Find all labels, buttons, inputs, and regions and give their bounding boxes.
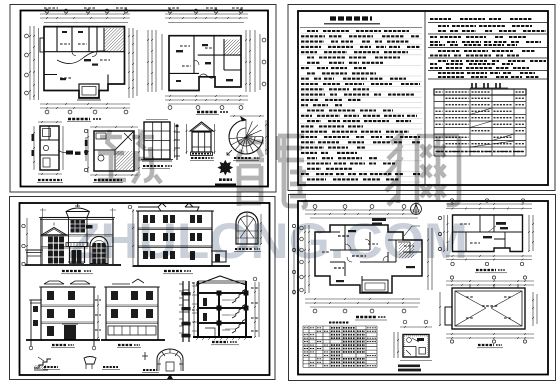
- spiral stair title: [234, 157, 252, 159]
- window C1 grid: [144, 122, 170, 159]
- BR table grid: [303, 326, 377, 367]
- wall section strip: [183, 281, 189, 342]
- elev2 parapet: [136, 203, 214, 211]
- kitchen fixtures: [96, 133, 106, 139]
- window C2 dims: [186, 124, 188, 154]
- window C3 dims: [260, 214, 262, 244]
- window C2 title: [191, 157, 207, 159]
- wc detail walls: [403, 335, 429, 358]
- kitchen stair hatch: [116, 151, 133, 170]
- floor plan 2 terrace curve: [199, 74, 215, 78]
- floor plan 1 room labels: [60, 43, 70, 45]
- floor plan 2 top bubbles: [168, 9, 172, 13]
- BR table header: [329, 322, 349, 324]
- floor plan 1 bottom dims: [40, 103, 130, 105]
- floor plan 2 right bubbles: [262, 38, 266, 42]
- spec left column text: [307, 30, 318, 32]
- bathroom title: [38, 179, 62, 181]
- floor plan 1 left annex: [40, 38, 44, 52]
- elev2 title: [164, 270, 182, 272]
- site plan leader: [404, 226, 420, 236]
- elev4 ground: [101, 339, 165, 341]
- section beam blobs: [217, 291, 222, 296]
- schedule table text: [436, 91, 443, 93]
- sheet TR inner border: [298, 11, 548, 185]
- wc wall dots: [405, 336, 428, 356]
- tank left chamber: [445, 307, 452, 325]
- sheet BR outer border: [289, 195, 556, 381]
- elev1 parapet: [39, 218, 115, 220]
- mid dim column: [97, 295, 99, 338]
- floor plan 1 left bubbles: [25, 34, 29, 38]
- elev1 left bubbles: [22, 224, 25, 227]
- svg-text:ZHULONG.COM: ZHULONG.COM: [68, 213, 468, 269]
- floor plan 1 right dims: [128, 28, 130, 98]
- elev2 ground: [133, 265, 230, 267]
- compass: [411, 204, 422, 215]
- site plan bottom bubbles: [313, 309, 317, 313]
- site plan stair: [398, 242, 410, 254]
- spec title: [330, 16, 372, 20]
- schedule symbols: [472, 83, 500, 88]
- elev4 roof: [104, 279, 160, 287]
- elev3 ground: [26, 339, 100, 341]
- attic bottom dims: [446, 255, 532, 257]
- section right dims: [254, 282, 256, 337]
- attic interior: [453, 215, 523, 252]
- sheet TR outer border: [288, 5, 555, 191]
- floor plan 1 top dims: [40, 13, 130, 15]
- bathroom dims: [33, 126, 35, 170]
- elev3 title: [52, 344, 66, 346]
- site plan top bubbles: [313, 205, 317, 209]
- elev1 balcony: [66, 243, 88, 247]
- bathroom fixtures: [43, 129, 51, 137]
- elev3 outline: [41, 287, 94, 340]
- elev3 left annex: [31, 300, 41, 340]
- window C1 dims: [174, 123, 176, 158]
- window C3 arch: [236, 212, 258, 244]
- window C1 frame: [144, 122, 170, 159]
- site plan inner walls: [330, 225, 422, 285]
- floor plan 2 top dims: [165, 13, 248, 15]
- section title: [212, 341, 228, 343]
- sheet TL inner border: [21, 11, 269, 187]
- elev2 annex: [212, 251, 226, 262]
- window C2 pediment: [190, 122, 213, 131]
- elev1 left window stack: [48, 237, 64, 264]
- floor plan 1 outer walls: [44, 27, 125, 98]
- floor plan 1 top bubbles: [45, 9, 49, 13]
- wc fixtures: [407, 338, 412, 343]
- kitchen title: [94, 179, 122, 181]
- wall section marks: [192, 285, 198, 287]
- wc dims: [400, 326, 432, 328]
- site plan door arcs: [345, 239, 388, 262]
- window C2 frame: [192, 132, 211, 152]
- kitchen dims: [90, 126, 138, 128]
- bathroom left dim text: [32, 134, 34, 141]
- section interior: [203, 298, 207, 306]
- detail arch title: [143, 369, 157, 371]
- elev4 windows: [111, 291, 118, 300]
- section ground: [193, 336, 252, 338]
- BR table text: [304, 327, 308, 329]
- window C1 sill: [141, 160, 173, 162]
- spiral stair: [245, 120, 247, 137]
- spec column divider: [424, 11, 426, 185]
- elev3 floors: [41, 305, 94, 324]
- section walls: [198, 281, 246, 337]
- elev2 windows r1: [143, 215, 148, 223]
- elev3 windows: [47, 291, 54, 300]
- sheet TL outer border: [10, 5, 276, 193]
- elev1 entry: [72, 250, 82, 264]
- elev1 roof blob: [86, 225, 93, 229]
- elev2 windows r2: [143, 233, 148, 241]
- bathroom plan walls: [40, 126, 59, 170]
- floor plan 1 interior walls: [44, 27, 125, 84]
- site plan porch: [362, 280, 388, 292]
- mark small: [142, 352, 148, 360]
- floor plan 1 left dims: [29, 26, 31, 100]
- section stair steps: [232, 289, 246, 333]
- ornament label: [219, 178, 232, 181]
- floor plan 2 title: [197, 111, 217, 113]
- attic side dims: [443, 215, 445, 251]
- sheet BL outer border: [10, 197, 276, 380]
- elev4 shopfront: [108, 326, 156, 335]
- floor plan 1 bottom bubbles: [45, 110, 49, 114]
- spiral stair dims: [230, 115, 264, 117]
- elev1 floor lines: [41, 235, 113, 249]
- elev4 title: [118, 344, 132, 346]
- floor plan 2 bottom bubbles: [168, 106, 172, 110]
- section roof: [196, 276, 246, 285]
- site plan bottom dims: [305, 298, 420, 300]
- site plan notes: [372, 218, 386, 221]
- elev2 windows r3: [143, 251, 148, 259]
- attic notes: [496, 222, 506, 225]
- site plan title: [356, 316, 376, 318]
- elev1 main block: [41, 218, 113, 266]
- attic title: [476, 269, 496, 271]
- detail step: [34, 359, 51, 368]
- tank title: [478, 344, 494, 346]
- floor plan 2 right dims: [245, 30, 247, 92]
- detail arch: [157, 349, 183, 371]
- floor plan 2 stair hatch: [225, 40, 241, 56]
- section floor slabs: [198, 292, 246, 294]
- elev4 outline: [106, 287, 158, 340]
- detail arch arrow: [167, 374, 173, 379]
- elev2 dims: [132, 209, 134, 266]
- elev1 left pavilion: [42, 228, 67, 236]
- site plan outer walls: [315, 225, 422, 293]
- elev4 floors: [106, 305, 158, 324]
- kitchen left dim text: [85, 137, 87, 161]
- window C1 title: [143, 165, 163, 167]
- attic top dims: [446, 203, 532, 205]
- section marker strip: [176, 128, 178, 160]
- elev2 floor lines: [138, 228, 212, 248]
- site plan top dims: [305, 209, 420, 211]
- BR left axis strip: [293, 230, 295, 295]
- schedule table grid: [434, 89, 526, 156]
- floor plan 1 stair hatch: [105, 28, 125, 52]
- site plan left dims: [304, 225, 306, 293]
- spec column rule: [300, 27, 422, 29]
- floor plan 2 room labels: [180, 45, 190, 47]
- ornament flower: [217, 160, 233, 176]
- elev1 axis lines: [43, 208, 113, 265]
- tank outer: [452, 288, 525, 329]
- floor plan 2 door marks: [176, 50, 183, 52]
- schedule bottom note: [437, 151, 523, 153]
- floor plan 1 living curve: [57, 51, 110, 64]
- window C3 title: [235, 248, 252, 250]
- elev1 tower body: [69, 218, 88, 247]
- floor plan 2 outer walls: [169, 36, 241, 91]
- elev1 porch columns: [70, 247, 85, 263]
- tank top dims: [446, 280, 534, 282]
- section left dims: [193, 282, 195, 337]
- elev3 posts: [31, 340, 94, 346]
- elev1 tower roof: [66, 208, 89, 218]
- small north arrow: [240, 116, 247, 122]
- elev1 tower windows: [71, 220, 86, 233]
- sheet BL inner border: [20, 203, 270, 375]
- leader note between details: [58, 150, 66, 153]
- window C2 base: [191, 152, 213, 155]
- kitchen plan walls: [94, 131, 134, 171]
- sheet BR inner border: [298, 201, 548, 375]
- floor plan 1 porch: [79, 84, 99, 98]
- elev1 left annex: [27, 250, 41, 265]
- ornament black bar: [215, 184, 236, 188]
- floor plan 1 title: [68, 118, 90, 120]
- tank marks: [482, 305, 498, 307]
- schedule door diagonals: [470, 108, 514, 147]
- spiral stair arrow: [227, 150, 232, 155]
- elev1 ground: [25, 264, 121, 266]
- attic plan walls: [453, 215, 523, 252]
- tank diagonals: [455, 291, 522, 326]
- elev1 title: [62, 270, 82, 272]
- floor plan 2 bottom dims: [165, 95, 248, 97]
- elev1 arch window: [90, 237, 108, 264]
- site plan right dims: [427, 228, 429, 290]
- tank bottom dims: [446, 333, 534, 335]
- floor plan 1 door marks: [84, 59, 91, 61]
- elev2 outline: [138, 211, 212, 266]
- wc title: [398, 365, 420, 368]
- tank side dims: [439, 292, 441, 326]
- detail step title: [44, 366, 58, 368]
- elev3 roof: [39, 281, 96, 287]
- detail eave: [84, 357, 96, 365]
- floor plan 2 interior walls: [169, 36, 241, 77]
- spec right column text: [428, 22, 547, 24]
- elev3 door: [64, 325, 76, 340]
- detail eave title: [103, 366, 118, 368]
- floor plan 2 left dims: [147, 30, 149, 92]
